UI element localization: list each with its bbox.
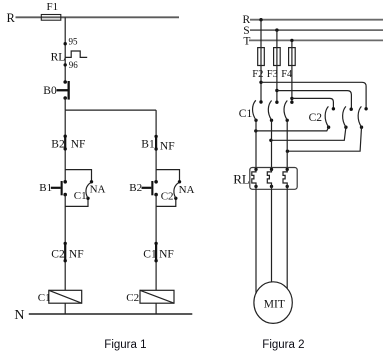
- svg-text:NF: NF: [71, 139, 86, 151]
- svg-text:MIT: MIT: [264, 299, 285, 311]
- contactor C1 pole 1: [253, 100, 263, 122]
- node return junction 2: [269, 139, 272, 142]
- node feed tap 3: [290, 97, 293, 100]
- svg-text:RL: RL: [233, 172, 250, 187]
- wire R line figura 1: [16, 16, 180, 18]
- svg-text:B1: B1: [141, 139, 155, 151]
- svg-text:C2: C2: [161, 191, 174, 203]
- wire motor lead 2 (upper): [271, 120, 273, 169]
- wire C2 pole3 return to phase line 3: [287, 127, 361, 151]
- node junction R tap: [259, 18, 262, 21]
- svg-text:F2: F2: [252, 69, 263, 80]
- wire right parallel combo frame: [156, 170, 179, 207]
- pushbutton B2 (NO start, right): [129, 180, 158, 196]
- node pin 95: [63, 36, 78, 46]
- svg-text:NF: NF: [69, 248, 84, 260]
- wire coil C1 to N: [64, 303, 66, 314]
- svg-text:F4: F4: [281, 69, 293, 80]
- node feed tap 1: [259, 81, 262, 84]
- wire C2 pole1 return to phase line 1: [256, 127, 329, 131]
- svg-text:B2: B2: [51, 139, 65, 151]
- contactor C2 pole 3: [358, 106, 368, 128]
- wire C2 pole2 return to phase line 2: [271, 127, 346, 140]
- wire right branch vertical (lower): [155, 195, 157, 291]
- wire left parallel combo frame: [65, 170, 91, 207]
- svg-text:96: 96: [69, 60, 79, 70]
- node junction S tap: [275, 28, 278, 31]
- contactor C1 pole 2: [268, 101, 278, 123]
- svg-text:B1: B1: [39, 182, 52, 194]
- wire motor lead 3 (lower): [286, 186, 288, 288]
- wire right branch vertical (mid): [155, 110, 157, 182]
- pushbutton B1 (NO start, left): [39, 180, 67, 196]
- svg-text:C2: C2: [309, 112, 323, 124]
- wire R phase line: [250, 19, 383, 21]
- wire crossover feed T to C2 left contact: [292, 98, 334, 108]
- wire S phase line: [250, 29, 383, 31]
- contactor C2 pole 1: [325, 106, 335, 128]
- coil C1: [38, 290, 82, 304]
- wire phase 3 below fuse: [291, 66, 293, 103]
- node pin 96: [63, 60, 78, 70]
- motor MIT: [254, 282, 292, 324]
- svg-text:NA: NA: [90, 184, 106, 196]
- wire branch split horizontal: [65, 109, 156, 111]
- wire phase 2 below fuse: [276, 66, 278, 103]
- node feed tap 2: [275, 89, 278, 92]
- contactor C2 pole 2: [343, 106, 353, 128]
- svg-text:C2: C2: [51, 248, 65, 260]
- svg-text:NF: NF: [159, 248, 174, 260]
- overload relay RL box: [233, 168, 297, 190]
- svg-text:Figura 1: Figura 1: [104, 339, 146, 351]
- svg-text:F1: F1: [47, 1, 59, 13]
- svg-text:95: 95: [69, 36, 79, 46]
- wire phase 1 drop: [260, 20, 262, 48]
- overload heater element 2: [267, 168, 273, 188]
- wire motor lead 2 (lower): [271, 186, 273, 282]
- wire from B0 to branch split: [64, 98, 66, 110]
- wire main left vertical (top section): [64, 17, 66, 82]
- wire coil C2 to N: [155, 303, 157, 314]
- fuse F3: [267, 48, 280, 80]
- svg-text:Figura 2: Figura 2: [262, 339, 304, 351]
- wire left branch vertical (lower): [64, 195, 66, 291]
- svg-text:NF: NF: [160, 141, 175, 153]
- fuse F2: [252, 48, 264, 80]
- svg-text:NA: NA: [179, 184, 195, 196]
- contact B2 NF (left branch): [51, 135, 85, 151]
- wire N line: [29, 313, 193, 315]
- node return junction 1: [254, 129, 257, 132]
- svg-text:C1: C1: [143, 248, 157, 260]
- wire phase 2 drop: [276, 30, 278, 47]
- contact C1 NF (right branch interlock): [143, 242, 174, 263]
- coil C2: [126, 290, 174, 304]
- overload heater element 3: [283, 168, 289, 188]
- node junction T tap: [290, 39, 293, 42]
- svg-text:C2: C2: [126, 292, 139, 304]
- fuse F4: [281, 48, 295, 80]
- contact C1 NA (seal-in, left): [74, 180, 106, 202]
- contact C2 NF (left branch interlock): [51, 242, 83, 263]
- wire phase 3 drop: [291, 40, 293, 47]
- svg-text:RL: RL: [51, 51, 66, 63]
- svg-text:F3: F3: [267, 69, 278, 80]
- svg-text:B2: B2: [129, 182, 142, 194]
- contact C2 NA (seal-in, right): [161, 180, 195, 202]
- svg-text:N: N: [14, 308, 24, 323]
- node return junction 3: [286, 150, 289, 153]
- pushbutton B0 (NC stop): [43, 80, 70, 100]
- wire left branch vertical (mid): [64, 110, 66, 182]
- contact B1 NF (right branch): [141, 135, 174, 153]
- fuse F1: [41, 1, 61, 20]
- wire crossover feed S to C2 middle contact: [277, 91, 352, 110]
- svg-text:R: R: [7, 11, 16, 25]
- svg-text:B0: B0: [43, 85, 57, 97]
- wire phase 1 below fuse: [260, 66, 262, 103]
- wire crossover feed R to C2 right contact: [261, 82, 366, 109]
- wire motor lead 1 (lower): [255, 186, 257, 293]
- wire T phase line: [249, 39, 383, 41]
- svg-text:C1: C1: [239, 108, 253, 120]
- thermal relay contact RL: [51, 51, 88, 63]
- svg-text:C1: C1: [74, 190, 87, 202]
- svg-text:T: T: [243, 35, 250, 47]
- overload heater element 1: [252, 168, 258, 188]
- contactor C1 pole 3: [284, 101, 294, 123]
- wire motor lead 3 (upper): [286, 120, 288, 169]
- wire motor lead 1 (upper): [255, 120, 257, 169]
